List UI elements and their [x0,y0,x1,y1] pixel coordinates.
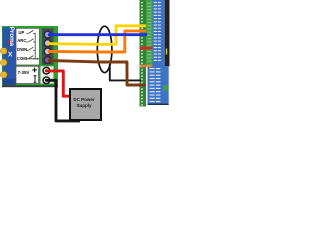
svg-text:Proma: Proma [8,27,15,47]
